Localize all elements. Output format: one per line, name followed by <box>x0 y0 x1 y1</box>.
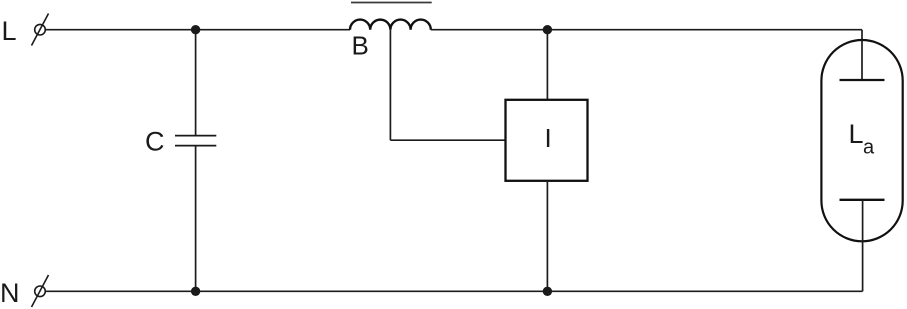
wire coil tap down <box>389 30 391 141</box>
svg-text:I: I <box>545 123 552 153</box>
wire lamp top drop <box>861 30 863 80</box>
lamp electrode bottom <box>840 199 885 201</box>
wire top rail left (terminal to coil) <box>46 29 351 31</box>
node junction top ignitor <box>543 25 552 34</box>
terminal L (circle with slash) <box>32 14 49 46</box>
svg-text:a: a <box>863 137 875 159</box>
wire capacitor lower lead <box>195 146 197 292</box>
wire ignitor upper lead <box>546 30 548 100</box>
svg-text:L: L <box>2 16 17 46</box>
inductor B coil <box>350 20 431 30</box>
node junction bottom ignitor <box>543 287 552 296</box>
wire tap to ignitor <box>390 139 505 141</box>
lamp La envelope <box>821 40 902 241</box>
node junction bottom capacitor <box>191 287 200 296</box>
svg-text:N: N <box>0 278 20 308</box>
wire capacitor upper lead <box>195 30 197 136</box>
wire lamp bottom lead <box>862 200 864 291</box>
wire bottom rail <box>46 290 863 292</box>
op-amp ignitor box U1 <box>506 100 588 181</box>
wire ignitor lower lead <box>546 181 548 291</box>
lamp electrode top <box>840 79 885 81</box>
lamp top lead inside <box>861 40 863 80</box>
node junction top capacitor <box>191 25 200 34</box>
terminal N (circle with slash) <box>32 275 49 307</box>
inductor B core bar <box>351 2 432 4</box>
svg-text:B: B <box>352 31 369 61</box>
svg-text:L: L <box>849 119 864 149</box>
capacitor C plates <box>175 136 216 146</box>
svg-text:C: C <box>145 127 165 157</box>
wire top rail right (coil to lamp corner) <box>431 29 862 31</box>
